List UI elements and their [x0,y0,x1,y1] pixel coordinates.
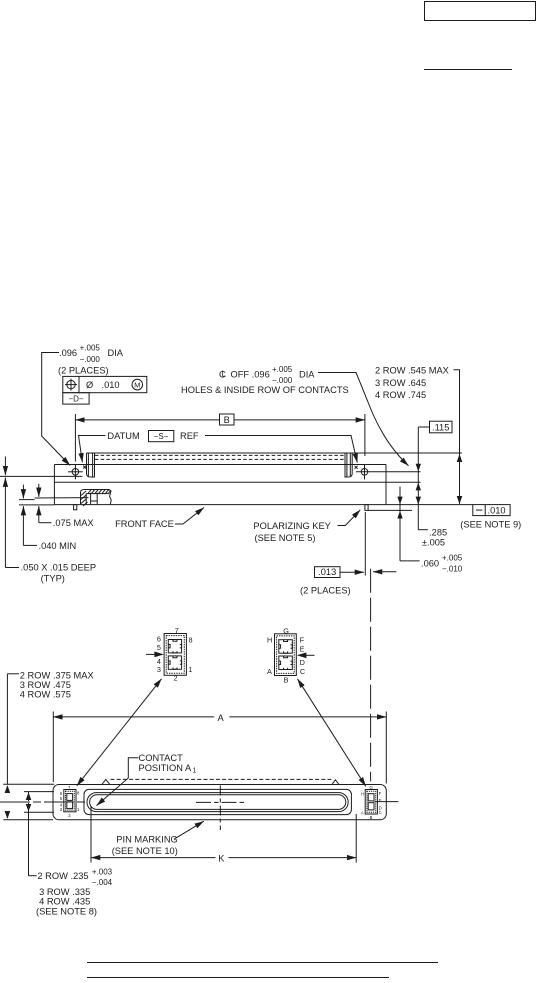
svg-text:PIN MARKING: PIN MARKING [116,835,177,845]
leader detail left to connector [77,679,162,786]
polarizing key tab [365,505,368,511]
svg-text:OFF .096: OFF .096 [231,370,270,380]
contact rows dashed [95,454,345,456]
svg-text:(2 PLACES): (2 PLACES) [58,366,109,376]
center vertical tick [219,786,221,831]
contact slot outer [87,793,348,812]
svg-text:(TYP): (TYP) [41,573,65,583]
svg-text:(SEE NOTE 10): (SEE NOTE 10) [112,846,178,856]
title block box top right [425,2,536,21]
svg-text:1: 1 [77,807,80,812]
label contact position A1 [97,753,197,806]
contact numbering detail left [146,626,193,683]
label pin marking see note 10 [112,821,204,856]
front face extension right [386,504,473,506]
dimension .040 min [23,485,76,551]
svg-text:K: K [218,853,225,863]
svg-text:3: 3 [60,807,63,812]
svg-text:.075 MAX: .075 MAX [53,518,94,528]
svg-text:.285: .285 [429,527,447,537]
svg-text:+.005: +.005 [442,553,463,562]
svg-text:POLARIZING KEY: POLARIZING KEY [253,521,331,531]
mini contact block left [60,785,80,818]
svg-text:1: 1 [193,767,197,774]
key bottom extension line [368,509,412,511]
svg-text:2 ROW .235: 2 ROW .235 [37,871,88,881]
polarizing key triangle right [332,780,339,785]
svg-text:.010: .010 [488,505,506,515]
dimension .115 [416,421,452,530]
svg-text:DIA: DIA [108,348,124,358]
datum D box [63,393,89,404]
svg-text:F: F [300,635,305,644]
svg-text:(SEE NOTE 5): (SEE NOTE 5) [255,533,316,543]
dimension B [75,414,365,462]
svg-text:−.000: −.000 [272,376,293,385]
svg-text:3 ROW .645: 3 ROW .645 [375,378,426,388]
dimension .060 +.005 -.010 [397,487,462,574]
x mark left [83,466,86,469]
x mark right [355,466,358,469]
insulator outline [84,789,351,814]
svg-text:.096: .096 [59,348,77,358]
svg-text:FRONT FACE: FRONT FACE [115,519,174,529]
straightness .010 box see note 9 [460,505,521,530]
svg-text:M: M [134,381,140,390]
svg-text:−.004: −.004 [92,878,113,887]
centerline left [0,801,86,803]
mounting hole left [68,465,83,480]
label 2 row .545 max / 3 row .645 / 4 row .745 [375,366,462,505]
svg-text:+.003: +.003 [92,868,113,877]
heading rule top right [424,69,512,71]
label CL OFF .096 DIA holes and inside row of contacts [181,365,409,466]
dimension .075 max [39,484,94,529]
svg-text:L: L [222,369,227,378]
bottom view body outline [53,785,386,820]
svg-text:5: 5 [157,643,161,652]
svg-text:−S−: −S− [154,432,169,441]
svg-text:2 ROW .545 MAX: 2 ROW .545 MAX [375,366,449,376]
svg-text:B: B [224,415,230,425]
svg-text:1: 1 [188,665,192,674]
svg-text:.013: .013 [318,567,336,577]
svg-text:2: 2 [68,813,71,818]
svg-text:Ø: Ø [86,380,93,390]
leader detail right to connector [298,679,366,787]
svg-text:+.005: +.005 [80,344,101,353]
insulator right end cap [345,453,352,477]
svg-text:DATUM: DATUM [107,431,139,441]
svg-text:3 ROW .335: 3 ROW .335 [39,887,90,897]
svg-text:A: A [218,713,225,723]
svg-text:HOLES & INSIDE ROW OF CONTACTS: HOLES & INSIDE ROW OF CONTACTS [181,385,349,395]
svg-text:E: E [300,644,305,653]
svg-text:±.005: ±.005 [422,538,445,548]
dimension K [91,806,356,863]
label datum S ref [79,431,358,463]
svg-text:−.010: −.010 [442,564,463,573]
svg-text:8: 8 [77,790,80,795]
svg-text:B: B [284,676,289,685]
svg-text:.050 X .015 DEEP: .050 X .015 DEEP [21,563,96,573]
dimension .285 +-.005 [418,527,447,547]
svg-text:7: 7 [175,626,179,635]
centerline right stub [375,801,399,803]
mounting hole right [356,465,421,480]
svg-text:+.005: +.005 [272,365,293,374]
svg-text:(SEE NOTE 8): (SEE NOTE 8) [36,906,97,916]
svg-text:C: C [379,810,382,815]
recess step lines left [19,499,35,501]
dimension 2 row .375 max overall [3,671,93,820]
feature control frame position dia .010 M [63,376,147,392]
svg-text:B: B [370,815,373,820]
svg-text:−.000: −.000 [80,355,101,364]
svg-text:3: 3 [157,665,161,674]
side view body outline [54,465,420,505]
polarizing key triangle left [102,779,110,784]
hatched standoff detail [81,490,112,507]
svg-text:F: F [379,791,382,796]
svg-text:(SEE NOTE 9): (SEE NOTE 9) [460,520,521,530]
footer rule 2 [87,977,389,979]
label .096 DIA 2 PLACES [42,344,124,466]
svg-text:POSITION A: POSITION A [139,763,192,773]
svg-text:8: 8 [189,635,193,644]
svg-text:CONTACT: CONTACT [139,753,184,763]
contact slot inner [90,795,346,810]
label front face [115,508,204,530]
svg-text:5: 5 [60,796,63,801]
dimension .013 2 places [300,567,396,596]
svg-text:H: H [267,635,272,644]
contact lettering detail right [267,626,315,684]
key edge extension line [364,512,366,576]
insulator strip top and extension [87,452,463,454]
svg-text:C: C [300,667,305,676]
label polarizing key see note 5 [253,510,360,543]
centerline center dashes [196,801,244,803]
dimension 2 row .235 insulator [24,792,113,917]
svg-text:2 ROW .375 MAX: 2 ROW .375 MAX [20,671,94,681]
svg-text:A: A [361,811,364,816]
footer rule 1 [87,962,438,964]
svg-text:2: 2 [174,674,178,683]
mini contact block right [361,785,382,820]
svg-text:REF: REF [180,431,199,441]
key centerline chain to bottom view [370,569,372,782]
svg-text:DIA: DIA [299,370,315,380]
svg-text:.060: .060 [421,559,439,569]
left standoff nub [74,505,77,510]
svg-text:H: H [361,791,364,796]
svg-text:4 ROW .435: 4 ROW .435 [39,896,90,906]
insulator left end cap [87,453,95,477]
svg-text:G: G [283,626,289,635]
svg-text:.040 MIN: .040 MIN [39,541,77,551]
svg-text:(2 PLACES): (2 PLACES) [300,586,351,596]
svg-text:3 ROW .475: 3 ROW .475 [20,680,71,690]
key row dashed line [111,778,332,780]
dimension .050 x .015 deep [5,457,96,584]
svg-text:−D−: −D− [68,395,83,404]
svg-text:4 ROW .575: 4 ROW .575 [20,690,71,700]
svg-text:4 ROW .745: 4 ROW .745 [375,390,426,400]
svg-text:E: E [379,798,382,803]
svg-text:.010: .010 [102,380,120,390]
svg-text:A: A [267,667,272,676]
svg-text:D: D [300,658,305,667]
flange face line extended left [0,475,83,477]
svg-text:.115: .115 [432,422,449,432]
dimension A [53,712,386,784]
